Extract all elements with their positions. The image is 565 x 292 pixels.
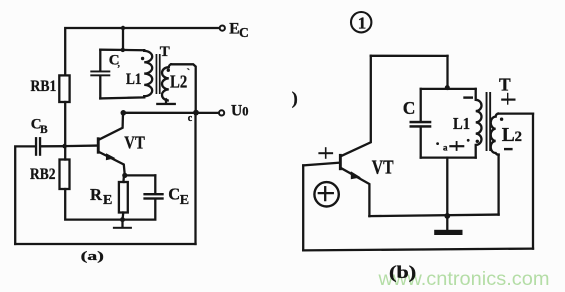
polarity minus below L2	[504, 148, 513, 150]
svg-text:(a): (a)	[81, 248, 104, 263]
wire: (b) top rail	[371, 55, 448, 57]
svg-text:): )	[292, 88, 298, 109]
speckle dot right of plus	[467, 139, 470, 142]
svg-text:VT: VT	[124, 133, 145, 153]
terminal EC open circle	[220, 26, 225, 31]
wire: tank (a) left edge upper	[99, 50, 101, 71]
wire: (a) right border	[194, 112, 196, 244]
wire: emitter node to CE branch	[125, 174, 156, 176]
wire: tank (a) left edge lower	[99, 76, 101, 98]
wire: tank (b) left edge upper	[420, 89, 422, 121]
wire: CE drop	[154, 175, 156, 193]
transformer T core (a)	[156, 54, 161, 94]
node: junction dot right border/U0	[193, 110, 199, 116]
transistor VT (b) base bar	[339, 154, 342, 170]
wire: tank (b) bottom riser	[446, 158, 448, 216]
node: junction dot collector/U0	[121, 110, 127, 116]
resistor RB1 body	[59, 75, 69, 102]
wire: (b) bottom	[303, 249, 533, 251]
wire: RB1 bottom to base node to RB2	[64, 102, 66, 160]
svg-text:C: C	[168, 185, 180, 204]
svg-text:E: E	[103, 193, 112, 208]
svg-text:2: 2	[515, 129, 523, 145]
svg-text:R: R	[90, 185, 103, 204]
label C tank (a)	[109, 53, 120, 69]
label RB1	[31, 78, 57, 95]
svg-text:RB2: RB2	[30, 166, 56, 183]
transistor VT (a) collector lead	[99, 113, 123, 140]
svg-text:L2: L2	[170, 71, 187, 91]
watermark www.cntronics.com	[377, 268, 549, 290]
node: L1 (b) winding dot	[476, 140, 479, 143]
wire: base wire to VT	[65, 144, 97, 147]
label (a)	[81, 248, 104, 263]
svg-text:L: L	[502, 125, 515, 146]
svg-text:c: c	[188, 113, 193, 124]
transistor VT (a) base bar	[97, 137, 100, 153]
svg-text:`: `	[187, 67, 191, 79]
node: L1 winding dot	[141, 57, 144, 60]
svg-text:RB1: RB1	[31, 78, 57, 95]
transistor VT (a) emitter lead	[99, 152, 125, 176]
node: junction dot ground rail	[120, 217, 125, 222]
wire: tank (b) left edge lower	[420, 128, 422, 158]
transistor VT (b) emitter lead	[341, 168, 370, 216]
svg-text:U: U	[231, 103, 242, 120]
wire: (a) left border	[15, 146, 35, 244]
svg-text:VT: VT	[372, 156, 394, 178]
svg-text:E: E	[180, 193, 189, 208]
node: junction dot emitter rail	[444, 213, 450, 219]
wire: (b) L2 top lead	[498, 112, 533, 114]
node: junction dot top rail / tank riser	[121, 26, 125, 30]
inductor L1 (a) coil	[144, 50, 152, 97]
svg-text:C: C	[239, 25, 249, 40]
squiggle a near plus	[443, 143, 448, 153]
label EC	[229, 20, 248, 40]
polarity minus L1 top	[463, 96, 473, 98]
label L1 (a)	[126, 71, 142, 88]
figure mark numeral 1	[358, 14, 367, 33]
terminal U0 open circle	[219, 110, 224, 115]
source circle with plus	[314, 182, 338, 206]
wire: (b) right side	[532, 114, 534, 249]
svg-text:L1: L1	[126, 71, 142, 88]
polarity plus above L2	[502, 94, 514, 105]
node: L2 (b) winding dot	[500, 118, 503, 121]
capacitor C (b) plates	[410, 121, 432, 128]
wire: emitter node to RE	[122, 175, 125, 182]
wire: CB to base node	[41, 145, 64, 147]
wire: (a) top supply rail to EC	[65, 28, 219, 75]
svg-text:0: 0	[242, 105, 248, 119]
svg-text:T: T	[499, 75, 511, 95]
transistor VT (b) collector lead	[341, 56, 371, 157]
capacitor C (a) plates	[90, 71, 110, 77]
label T (b)	[499, 75, 511, 95]
svg-text:T: T	[160, 44, 170, 60]
label (b)	[389, 262, 416, 282]
ground symbol (b)	[434, 216, 462, 235]
label RE	[90, 185, 112, 208]
label VT (a)	[124, 133, 145, 153]
inductor L2 (a) coil	[162, 64, 171, 100]
wire: U0 output line	[123, 112, 218, 114]
wire: RE bottom	[121, 213, 124, 220]
transistor VT (b) emitter arrow	[351, 171, 361, 179]
ground symbol under T (a)	[156, 100, 176, 106]
label L1 (b)	[453, 114, 470, 133]
node: base junction dot	[62, 144, 67, 149]
resistor RB2 body	[60, 160, 70, 190]
speckle dot left of plus	[436, 142, 439, 145]
label CB	[31, 117, 48, 136]
wire: L2 top to right border	[171, 64, 196, 112]
circled figure mark 1	[351, 12, 371, 32]
wire: tank top riser	[122, 28, 124, 50]
stray paren mark	[292, 88, 298, 109]
label VT (b)	[372, 156, 394, 178]
svg-text:(b): (b)	[389, 262, 416, 282]
squiggle c near U0 junction	[188, 113, 193, 124]
ground symbol (a) emitter	[113, 220, 132, 229]
transformer T core (b)	[486, 92, 492, 151]
wire: (b) base wire	[303, 163, 339, 166]
label T (a)	[160, 44, 170, 60]
svg-text:,: ,	[118, 59, 120, 69]
svg-text:C: C	[403, 98, 416, 118]
wire: (b) left side	[302, 165, 304, 250]
inductor L1 (b) coil	[476, 89, 482, 158]
wire: tank (b) top edge	[421, 88, 476, 90]
svg-text:a: a	[443, 143, 448, 153]
inductor L2 (b) coil	[491, 114, 499, 155]
wire: tank (b) bottom edge	[421, 156, 476, 158]
capacitor CE plates	[143, 193, 163, 200]
svg-text:L1: L1	[453, 114, 470, 133]
label RB2	[30, 166, 56, 183]
label L2 (a)	[170, 67, 190, 91]
polarity plus L1 bottom	[450, 142, 463, 150]
node: junction dot tank top (b)	[445, 85, 450, 90]
wire: tank (a) top edge	[100, 49, 144, 52]
wire: (a) bottom border	[15, 243, 195, 245]
capacitor CB plates	[35, 137, 41, 156]
wire: RB2 bottom to emitter ground rail	[65, 189, 122, 220]
node: L2 winding dot	[167, 69, 170, 72]
wire: (b) L2 bottom drop	[497, 155, 499, 215]
node: emitter junction dot	[122, 173, 127, 178]
svg-text:B: B	[40, 124, 48, 136]
wire: (b) emitter rail	[369, 215, 498, 217]
label C (b)	[403, 98, 416, 118]
wire: CE bottom to ground rail	[123, 200, 156, 220]
resistor RE body	[119, 182, 128, 213]
wire: tank (a) bottom edge	[100, 97, 144, 98]
polarity + at base	[319, 148, 332, 158]
label L2 (b)	[502, 125, 522, 146]
wire: (b) tank riser	[446, 56, 448, 89]
label CE	[168, 185, 189, 208]
node: junction dot tank top	[121, 48, 125, 52]
svg-text:1: 1	[358, 14, 367, 33]
label U0	[231, 103, 248, 120]
transistor VT (a) emitter arrow	[106, 153, 116, 160]
